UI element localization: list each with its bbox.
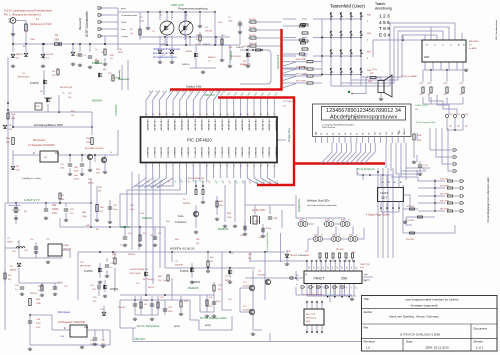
svg-text:RA1/AN1/C1: RA1/AN1/C1 [153, 147, 156, 158]
svg-text:prog: prog [121, 7, 126, 10]
svg-text:I2: I2 [441, 44, 443, 46]
svg-text:F+: F+ [339, 235, 341, 237]
svg-text:Out: Out [84, 326, 88, 329]
svg-text:(Multiplex Dual-LEDs: (Multiplex Dual-LEDs [307, 200, 330, 203]
svg-text:2009- 20.11.2010: 2009- 20.11.2010 [425, 346, 449, 350]
svg-text:IRF7319(P): IRF7319(P) [80, 266, 92, 268]
svg-text:R46 333R: R46 333R [440, 201, 450, 203]
svg-text:10n: 10n [70, 213, 73, 215]
svg-text:D13: D13 [392, 132, 394, 135]
svg-text:P-Tg 220R: P-Tg 220R [296, 67, 307, 69]
svg-text:R44 R49/R4B 10k: R44 R49/R4B 10k [188, 178, 204, 180]
svg-text:+5V(!) for NAND: +5V(!) for NAND [401, 75, 417, 78]
svg-text:RA5/AN3/C1: RA5/AN3/C1 [234, 147, 237, 158]
svg-text:D4: D4 [339, 133, 341, 135]
svg-text:D35: D35 [349, 235, 352, 237]
svg-text:F+: F+ [356, 235, 358, 237]
svg-text:BAT54: BAT54 [186, 50, 193, 53]
svg-text:SW6: SW6 [367, 33, 371, 35]
svg-text:74HCT: 74HCT [380, 191, 389, 195]
svg-text:BC850C: BC850C [258, 275, 266, 277]
svg-text:1M: 1M [98, 191, 101, 193]
svg-text:I5: I5 [462, 44, 464, 46]
svg-text:PIC 18F4620: PIC 18F4620 [187, 138, 212, 143]
svg-text:3v3 Regulator TO92/SOP: 3v3 Regulator TO92/SOP [58, 321, 86, 324]
svg-text:160R: 160R [118, 52, 123, 54]
svg-text:Display/Out: Display/Out [297, 198, 301, 212]
svg-text:C40: C40 [128, 233, 131, 235]
svg-text:+5V/D7: +5V/D7 [404, 128, 406, 134]
svg-text:1N4148: 1N4148 [118, 307, 126, 309]
svg-text:Anordnung: Anordnung [375, 7, 392, 11]
svg-text:right: right [364, 273, 368, 276]
svg-text:5V for Display LEDs: 5V for Display LEDs [200, 316, 227, 320]
svg-text:RA3/AN1/C3: RA3/AN1/C3 [220, 147, 223, 158]
svg-text:RB4/AN4/INT: RB4/AN4/INT [173, 120, 176, 132]
svg-text:#S2B/A4: #S2B/A4 [120, 225, 131, 229]
svg-text:Tastenfeld (User): Tastenfeld (User) [330, 4, 365, 9]
svg-text:299: 299 [341, 277, 347, 281]
svg-text:06/98: 06/98 [7, 242, 13, 244]
svg-text:E 0 #: E 0 # [379, 32, 391, 38]
svg-text:BPW41: BPW41 [183, 203, 191, 205]
svg-text:IRF7319 (N): IRF7319 (N) [60, 87, 72, 89]
svg-text:4 User-Eingänge (zum collectiv: 4 User-Eingänge (zum collective-Logik) [486, 177, 490, 222]
svg-text:C 61: C 61 [423, 165, 428, 167]
svg-text:D12: D12 [386, 132, 388, 135]
svg-text:100n: 100n [216, 301, 220, 303]
svg-text:RA1/AN7/C1: RA1/AN7/C1 [261, 147, 264, 158]
svg-text:4: 4 [367, 77, 368, 79]
svg-text:BO246AC BC850C: BO246AC BC850C [85, 147, 104, 150]
svg-text:Ty: Ty [95, 49, 97, 51]
svg-text:R28: R28 [71, 111, 74, 113]
svg-text:RB1/AN1/INT: RB1/AN1/INT [153, 120, 156, 132]
svg-text:100g: 100g [58, 282, 62, 284]
svg-text:4x AND: 4x AND [469, 47, 477, 50]
svg-text:4 Output Follow Treib: 4 Output Follow Treib [303, 293, 323, 296]
svg-text:D10: D10 [374, 132, 376, 135]
svg-text:Pieze: Pieze [372, 69, 378, 71]
svg-text:D31: D31 [325, 220, 328, 222]
svg-text:(Auswahl): (Auswahl) [118, 70, 121, 80]
svg-text:10k: 10k [163, 280, 166, 282]
svg-text:BC850C: BC850C [243, 310, 251, 312]
svg-text:1.0: 1.0 [366, 346, 371, 350]
svg-text:Data: Data [121, 28, 126, 31]
svg-text:56k: 56k [196, 243, 199, 245]
svg-text:RA5/AN5/C1: RA5/AN5/C1 [180, 147, 183, 158]
svg-text:10k: 10k [210, 261, 213, 263]
svg-text:Revision: Revision [364, 340, 376, 344]
svg-text:F+: F+ [348, 220, 350, 222]
svg-text:100n: 100n [168, 311, 172, 313]
svg-text:1u1B: 1u1B [246, 56, 251, 58]
svg-text:D0: D0 [315, 133, 317, 135]
svg-text:100k: 100k [140, 213, 144, 215]
svg-text:MOSFETs: N/3 2k0 3/3: MOSFETs: N/3 2k0 3/3 [170, 248, 195, 251]
svg-text:100n: 100n [130, 209, 134, 211]
svg-text:Q1 32.7 kHz: Q1 32.7 kHz [252, 209, 266, 212]
svg-text:RA2/AN2/C2: RA2/AN2/C2 [160, 147, 163, 158]
svg-text:1234567890123456789012 34: 1234567890123456789012 34 [326, 108, 401, 114]
svg-text:R13: R13 [243, 61, 246, 63]
svg-text:RB7/AN7/INT: RB7/AN7/INT [193, 120, 196, 132]
svg-text:100k: 100k [140, 21, 144, 23]
svg-text:R50 56R: R50 56R [406, 220, 414, 222]
svg-text:LadeFlg im Laufing: LadeFlg im Laufing [22, 178, 41, 180]
svg-text:BAT: BAT [82, 211, 87, 214]
svg-text:RB3/AN3/INT: RB3/AN3/INT [166, 120, 169, 132]
svg-text:RB1/AN9/INT: RB1/AN9/INT [207, 120, 210, 132]
svg-text:1M: 1M [144, 304, 147, 306]
svg-text:GND: GND [399, 129, 401, 134]
svg-text:D7: D7 [357, 133, 359, 135]
svg-text:RA0/AN0/C0: RA0/AN0/C0 [146, 147, 149, 158]
svg-text:R52 R53: R52 R53 [336, 249, 343, 251]
svg-text:SB 160: SB 160 [46, 54, 54, 56]
svg-text:D8: D8 [9, 125, 11, 127]
svg-text:SnB 220R: SnB 220R [296, 59, 306, 61]
svg-text:+surge: +surge [121, 35, 129, 38]
svg-text:1M: 1M [444, 94, 447, 96]
svg-text:Transistor: Transistor [175, 220, 187, 224]
svg-text:330k: 330k [74, 171, 78, 173]
svg-text:D1: D1 [321, 133, 323, 135]
svg-text:(ext): (ext) [174, 324, 180, 328]
svg-text:D2: D2 [327, 133, 329, 135]
svg-text:R6x: R6x [210, 257, 214, 259]
svg-text:Micropower: Micropower [33, 139, 46, 142]
svg-text:BAT48: BAT48 [16, 53, 23, 56]
svg-text:4 Output-Folge-Treiber: 4 Output-Folge-Treiber [366, 214, 390, 217]
svg-text:T 8 9: T 8 9 [379, 26, 390, 32]
svg-text:BA741: BA741 [88, 182, 95, 185]
svg-text:D5: D5 [345, 133, 347, 135]
svg-text:10M: 10M [227, 217, 231, 219]
svg-text:R45 333R: R45 333R [440, 194, 450, 196]
svg-text:10k: 10k [71, 115, 74, 117]
svg-text:RA1/AN9/C1: RA1/AN9/C1 [207, 147, 210, 158]
svg-text:I0: I0 [425, 44, 427, 46]
svg-text:R9 1M: R9 1M [249, 35, 256, 37]
svg-text:VDD 3V3: VDD 3V3 [204, 93, 215, 97]
svg-text:R11 220R: R11 220R [296, 81, 306, 83]
svg-text:Programmierumgebung: Programmierumgebung [178, 7, 208, 11]
svg-text:R50 56R: R50 56R [406, 239, 414, 241]
svg-text:Tastatur 8 Bit: Tastatur 8 Bit [186, 85, 201, 89]
svg-text:Sicherung 0.5 AF: Sicherung 0.5 AF [30, 22, 52, 26]
svg-text:1M: 1M [150, 235, 153, 237]
svg-text:5V for Peripherie: 5V for Peripherie [357, 168, 376, 171]
svg-text:RB5/AN5/INT: RB5/AN5/INT [180, 120, 183, 132]
svg-text:#G20/A2: #G20/A2 [230, 50, 233, 60]
svg-text:D8: D8 [363, 133, 365, 135]
svg-text:C41: C41 [158, 233, 161, 235]
svg-text:Foto-: Foto- [178, 214, 184, 218]
svg-text:#G23/A3: #G23/A3 [92, 61, 103, 65]
svg-text:BS170: BS170 [148, 287, 155, 289]
svg-text:220u: 220u [36, 323, 42, 325]
svg-text:10R: 10R [96, 173, 100, 175]
svg-text:File: File [364, 326, 369, 330]
svg-text:G:\TINYCA-1\HXLSCH-1.DSN: G:\TINYCA-1\HXLSCH-1.DSN [400, 333, 441, 337]
svg-text:RA4/AN2/C0: RA4/AN2/C0 [227, 147, 230, 158]
svg-text:330k: 330k [54, 39, 60, 42]
svg-text:R31: R31 [457, 114, 460, 116]
svg-text:RA6/AN4/C2: RA6/AN4/C2 [241, 147, 244, 158]
svg-text:P-MOS: P-MOS [30, 81, 39, 85]
svg-text:RB0/AN0/INT: RB0/AN0/INT [146, 120, 149, 132]
svg-text:R4B: R4B [219, 201, 224, 203]
svg-text:B1R: B1R [417, 140, 422, 142]
svg-text:(ext): (ext) [205, 323, 211, 327]
svg-text:C33: C33 [90, 285, 93, 287]
svg-text:F+: F+ [306, 220, 308, 222]
svg-text:R42 32A: R42 32A [440, 178, 448, 181]
svg-text:U-BAT 3.7V: U-BAT 3.7V [24, 198, 40, 202]
svg-text:1000u: 1000u [52, 208, 59, 211]
svg-text:3-0 Regulator TO92/SOP: 3-0 Regulator TO92/SOP [28, 144, 55, 147]
svg-text:RB4/AN2/INT: RB4/AN2/INT [227, 120, 230, 132]
svg-text:RA3/AN3/C3: RA3/AN3/C3 [166, 147, 169, 158]
svg-text:10u: 10u [30, 239, 33, 241]
svg-text:6.2V: 6.2V [52, 212, 57, 215]
svg-text:Lithium-Akku: Lithium-Akku [8, 204, 21, 207]
svg-text:Micropower: Micropower [58, 311, 71, 314]
svg-text:R2B: R2B [417, 135, 422, 137]
svg-text:6.3V: 6.3V [36, 327, 41, 329]
svg-text:G1: G1 [296, 275, 298, 277]
svg-text:22r: 22r [110, 58, 113, 60]
svg-text:N-MOS: N-MOS [192, 281, 200, 284]
svg-text:Abcdefghijklmnopqrstuvwx: Abcdefghijklmnopqrstuvwx [330, 115, 397, 121]
svg-text:I1: I1 [433, 44, 435, 46]
svg-text:F+: F+ [321, 235, 323, 237]
svg-text:D30: D30 [299, 220, 302, 222]
svg-text:F+: F+ [332, 220, 334, 222]
svg-text:#S2E/A5: #S2E/A5 [188, 286, 199, 290]
svg-text:2/10k: 2/10k [74, 179, 79, 181]
svg-text:1M: 1M [460, 94, 463, 96]
svg-text:47k: 47k [209, 306, 212, 308]
svg-text:4093: 4093 [424, 56, 430, 59]
svg-text:24x2 Zeichen: 24x2 Zeichen [322, 127, 336, 129]
svg-text:N-MOS: N-MOS [44, 97, 52, 100]
svg-text:1 of 1: 1 of 1 [476, 346, 484, 350]
svg-text:Title: Title [364, 297, 370, 301]
svg-text:74HCT: 74HCT [313, 277, 325, 281]
svg-text:I4: I4 [457, 44, 459, 46]
svg-text:20k: 20k [52, 71, 55, 73]
svg-text:RB0/AN6/INT: RB0/AN6/INT [254, 120, 257, 132]
svg-text:D34: D34 [332, 235, 335, 237]
svg-text:R8 1M: R8 1M [249, 27, 256, 29]
svg-text:P-MOS: P-MOS [180, 269, 189, 273]
svg-text:Author: Author [364, 310, 373, 314]
svg-text:10k: 10k [158, 280, 161, 282]
svg-text:RA6/AN6/C2: RA6/AN6/C2 [187, 147, 190, 158]
svg-text:Document: Document [474, 327, 488, 331]
svg-text:RA4/AN4/C0: RA4/AN4/C0 [173, 147, 176, 158]
svg-text:#S2B/A6: #S2B/A6 [218, 227, 229, 231]
svg-text:10V: 10V [16, 170, 20, 172]
svg-text:100u: 100u [113, 209, 117, 211]
svg-text:ICSP-Schnittstelle: ICSP-Schnittstelle [85, 11, 89, 37]
svg-text:RB3/AN9/INT: RB3/AN9/INT [274, 120, 277, 132]
svg-text:100n: 100n [228, 21, 232, 23]
svg-text:RA2/AN8/C2: RA2/AN8/C2 [268, 147, 271, 158]
svg-text:RA3/AN9/C3: RA3/AN9/C3 [274, 147, 277, 158]
svg-text:47k: 47k [8, 279, 11, 281]
svg-text:(firmware supposed): (firmware supposed) [410, 304, 437, 308]
svg-text:VDD 3V3: VDD 3V3 [134, 337, 145, 341]
svg-text:RB7/AN5/INT: RB7/AN5/INT [247, 120, 250, 132]
svg-text:short side and 8-pins antipara: short side and 8-pins antiparallel) [307, 204, 337, 207]
svg-text:Date: Date [406, 340, 413, 344]
svg-text:Out: Out [55, 152, 59, 155]
svg-text:4093: 4093 [36, 106, 40, 108]
svg-text:1u: 1u [110, 267, 112, 269]
svg-text:1N5148: 1N5148 [205, 31, 213, 33]
svg-text:IRF 73?9: IRF 73?9 [306, 314, 316, 316]
svg-text:100k: 100k [218, 22, 222, 24]
svg-text:Display-Bus: Display-Bus [287, 127, 291, 142]
svg-text:IRF7319(N): IRF7319(N) [130, 273, 141, 275]
svg-text:P-MOS: P-MOS [84, 269, 93, 273]
svg-text:BA786: BA786 [10, 269, 17, 272]
svg-text:IRF7319(P): IRF7319(P) [18, 77, 30, 79]
svg-text:BC850C: BC850C [243, 286, 251, 288]
svg-text:PMOSopp: PMOSopp [306, 318, 317, 320]
svg-text:74HCT299: 74HCT299 [360, 264, 371, 266]
svg-text:RB2/AN8/INT: RB2/AN8/INT [268, 120, 271, 132]
svg-text:Tx: Tx [357, 173, 359, 175]
svg-text:RB2/AN2/INT: RB2/AN2/INT [160, 120, 163, 132]
svg-text:PIC 18F4520: PIC 18F4520 [283, 101, 297, 103]
svg-text:1u: 1u [15, 289, 17, 291]
svg-text:R54: R54 [352, 252, 355, 254]
svg-text:SW5: SW5 [367, 15, 371, 17]
svg-text:5V for Peripherie: 5V for Peripherie [137, 324, 160, 328]
svg-text:BSN304: BSN304 [208, 57, 216, 59]
svg-text:220R: 220R [243, 65, 248, 67]
svg-text:LC-Display HD44780-kompatibel: LC-Display HD44780-kompatibel [322, 123, 354, 126]
svg-text:3: 3 [367, 58, 368, 60]
svg-text:(VDD3V3): (VDD3V3) [115, 104, 118, 115]
svg-text:D33: D33 [314, 235, 317, 237]
svg-text:Abschaltung/Batterie PWM: Abschaltung/Batterie PWM [34, 124, 63, 127]
svg-text:1N4148: 1N4148 [290, 255, 298, 257]
svg-text:C22: C22 [52, 204, 57, 207]
svg-text:D3: D3 [333, 133, 335, 135]
svg-text:user programmable Interface fo: user programmable Interface for lockers [405, 298, 459, 302]
svg-text:RA7/AN7/C3: RA7/AN7/C3 [193, 147, 196, 158]
svg-text:1k: 1k [38, 290, 40, 292]
svg-text:D32: D32 [341, 220, 344, 222]
svg-text:ARC6984: ARC6984 [469, 40, 479, 43]
svg-text:R60 333R: R60 333R [440, 209, 450, 211]
svg-text:8-10p: 8-10p [266, 228, 272, 230]
svg-text:QB 3: QB 3 [381, 196, 387, 200]
svg-text:Clock: Clock [121, 22, 127, 24]
svg-text:R-Tg 220R: R-Tg 220R [296, 74, 307, 76]
svg-text:R32: R32 [465, 114, 468, 116]
svg-text:RB6/AN6/INT: RB6/AN6/INT [187, 120, 190, 132]
svg-text:D9: D9 [368, 133, 370, 135]
svg-text:Tasten-: Tasten- [375, 2, 386, 6]
svg-text:#S20/A0: #S20/A0 [92, 99, 103, 103]
svg-text:SW7: SW7 [367, 52, 371, 54]
svg-text:R7x: R7x [209, 297, 213, 299]
svg-text:4 5 6: 4 5 6 [379, 20, 390, 26]
svg-text:G1: G1 [305, 274, 307, 276]
svg-text:4V for Display LEDs: 4V for Display LEDs [266, 232, 269, 252]
svg-text:5V for Display LEDs: 5V for Display LEDs [416, 121, 436, 124]
svg-text:(Auswahl): (Auswahl) [78, 18, 82, 31]
svg-text:4k7 0.2k: 4k7 0.2k [243, 46, 250, 48]
svg-text:#S20/A0: #S20/A0 [142, 216, 153, 220]
svg-text:+Potential-matte: +Potential-matte [121, 14, 138, 17]
svg-text:1M: 1M [420, 94, 423, 96]
svg-text:R51: R51 [305, 251, 308, 253]
svg-text:1 2 3: 1 2 3 [379, 14, 390, 20]
svg-text:560R: 560R [305, 255, 310, 257]
svg-text:BC850C: BC850C [128, 254, 136, 256]
svg-text:only: only [360, 267, 364, 269]
svg-text:LED-Vorwiderstände: LED-Vorwiderstände [495, 19, 498, 40]
svg-text:N-MOS: N-MOS [182, 64, 190, 66]
svg-text:RB6/AN4/INT: RB6/AN4/INT [241, 120, 244, 132]
svg-text:R44 333R: R44 333R [440, 186, 450, 188]
svg-text:RB1/AN7/INT: RB1/AN7/INT [261, 120, 264, 132]
svg-text:RA7/AN5/C3: RA7/AN5/C3 [247, 147, 250, 158]
svg-text:I3: I3 [449, 44, 451, 46]
svg-text:10k: 10k [130, 33, 133, 35]
svg-text:R10 1M: R10 1M [249, 43, 257, 45]
svg-text:(ICSP-Kalt-Programmier: (ICSP-Kalt-Programmier [153, 48, 180, 51]
svg-text:R6B 1g: R6B 1g [30, 293, 37, 295]
svg-text:Clk: Clk [364, 281, 367, 283]
svg-text:(im Gehäuseinneren): (im Gehäuseinneren) [153, 56, 177, 59]
svg-text:1: 1 [367, 21, 368, 23]
svg-text:G2: G2 [296, 280, 298, 282]
svg-text:2: 2 [367, 40, 368, 42]
svg-text:100n: 100n [60, 168, 64, 170]
svg-text:R30: R30 [449, 114, 452, 116]
svg-text:Tastatur/Poll: Tastatur/Poll [276, 54, 280, 69]
svg-text:Mg: Mg [103, 69, 106, 71]
svg-text:R6B: R6B [227, 213, 232, 215]
svg-text:Sheets: Sheets [474, 340, 484, 344]
svg-text:RB5/AN3/INT: RB5/AN3/INT [234, 120, 237, 132]
svg-text:RA0/AN6/C0: RA0/AN6/C0 [254, 147, 257, 158]
svg-text:D11: D11 [380, 132, 382, 135]
svg-text:Pin 1: Minuspol am Stecker(!): Pin 1: Minuspol am Stecker(!) [4, 13, 41, 17]
svg-text:RB3/AN1/INT: RB3/AN1/INT [220, 120, 223, 132]
svg-text:N-MOS: N-MOS [110, 288, 118, 291]
svg-text:10k: 10k [68, 97, 71, 99]
svg-text:N-MOS: N-MOS [203, 44, 211, 46]
svg-text:R71: R71 [143, 233, 146, 235]
svg-text:RA0/AN8/C0: RA0/AN8/C0 [200, 147, 203, 158]
svg-text:FET: FET [306, 321, 311, 323]
svg-text:L2452 (IC2L): L2452 (IC2L) [415, 105, 428, 107]
svg-text:220u: 220u [93, 297, 97, 299]
svg-text:R6 1M: R6 1M [249, 19, 256, 21]
svg-text:RB2/AN0/INT: RB2/AN0/INT [214, 120, 217, 132]
svg-text:Hans van Sperling , Neuss, Ger: Hans van Sperling , Neuss, Germany [389, 315, 439, 319]
